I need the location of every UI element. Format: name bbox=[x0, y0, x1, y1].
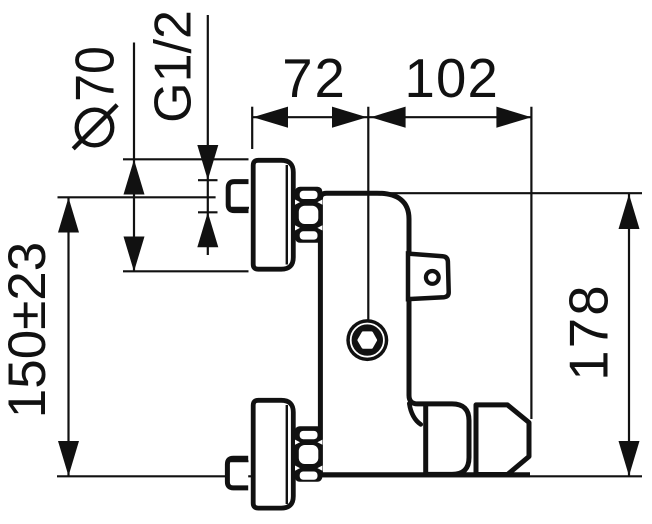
top connector pipe G1/2 bbox=[228, 182, 249, 211]
150 top arrow bbox=[58, 198, 79, 233]
center screw bbox=[346, 319, 388, 361]
top nut bbox=[295, 187, 322, 243]
faucet body bbox=[320, 193, 469, 475]
label O70 (diameter symbol) bbox=[73, 105, 117, 149]
svg-text:G1/2: G1/2 bbox=[144, 10, 202, 123]
O70 dim line bbox=[133, 43, 135, 272]
handle part 2 (end cap with chamfers) bbox=[476, 405, 529, 475]
svg-text:72: 72 bbox=[282, 48, 347, 109]
thin reference lines bbox=[57, 15, 642, 476]
baseline (wall line) bbox=[57, 475, 642, 477]
178 bottom arrow bbox=[619, 441, 640, 476]
72 left arrow bbox=[253, 107, 288, 128]
bottom flange (wall union) bbox=[253, 400, 293, 508]
178 dim line bbox=[628, 194, 630, 476]
body-top extension line to 178 dim bbox=[377, 192, 642, 194]
G1/2 tick bottom bbox=[198, 211, 218, 213]
centerline down to screw bbox=[367, 107, 369, 320]
svg-text:178: 178 bbox=[559, 283, 620, 381]
102 left arrow (bowtie right) bbox=[371, 107, 406, 128]
body bottom thick edge bbox=[318, 472, 530, 477]
G1/2 dim line bbox=[207, 15, 209, 255]
G1/2 bottom arrow (up, below) bbox=[197, 212, 218, 247]
centerline through body to screw bbox=[367, 193, 369, 319]
150 dim line bbox=[67, 198, 69, 477]
bracket hole bbox=[426, 271, 439, 284]
handle part 1 left edge bbox=[423, 404, 428, 475]
arrowheads bbox=[58, 107, 640, 476]
dimension texts bbox=[0, 10, 620, 418]
top flange (wall union) bbox=[253, 160, 293, 269]
bottom connector pipe bbox=[227, 458, 248, 488]
svg-text:70: 70 bbox=[66, 46, 126, 102]
102 right arrow bbox=[496, 107, 531, 128]
O70 top arrow (up) bbox=[124, 160, 145, 195]
O70 top extension line bbox=[123, 158, 249, 160]
72 right arrow (bowtie left) bbox=[332, 107, 367, 128]
150 top extension line bbox=[58, 196, 216, 198]
vertical ext line at flange face (72 left) bbox=[251, 107, 253, 149]
178 top arrow bbox=[619, 194, 640, 229]
svg-text:102: 102 bbox=[405, 48, 500, 109]
bottom nut bbox=[295, 426, 323, 482]
O70 bottom extension line bbox=[123, 270, 249, 272]
mounting bracket with hole bbox=[408, 254, 449, 300]
svg-text:150±23: 150±23 bbox=[0, 242, 57, 418]
150 bottom arrow bbox=[58, 441, 79, 476]
spout claw curve bbox=[409, 404, 421, 425]
vertical ext line at handle tip (102 right) bbox=[530, 107, 532, 419]
top dim line bbox=[252, 116, 531, 118]
G1/2 tick top bbox=[198, 179, 218, 181]
G1/2 top arrow (down, above) bbox=[197, 145, 218, 180]
O70 bottom arrow (down) bbox=[124, 237, 145, 272]
